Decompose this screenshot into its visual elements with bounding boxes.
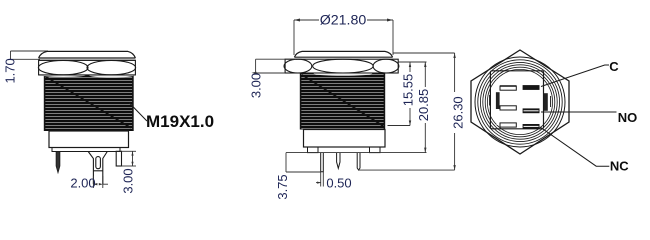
leader and label NO (541, 110, 637, 125)
button cap (middle view) (294, 51, 392, 57)
svg-text:M19X1.0: M19X1.0 (146, 112, 214, 131)
svg-text:3.00: 3.00 (249, 73, 264, 98)
pin terminal center with slot (left view) (88, 152, 107, 185)
terminal slot row1 right (C) (523, 85, 540, 90)
hex nut outline (bottom view) (471, 50, 569, 154)
dimension 3.00 (left view) (122, 151, 137, 166)
dimension 0.50 (316, 172, 323, 187)
pin 3 (middle view) (357, 153, 360, 170)
dimension 26.30 (358, 53, 455, 170)
base housing (left view) (49, 131, 129, 148)
terminal slot row3 left (500, 123, 516, 127)
outer circle (475, 57, 565, 147)
svg-text:NC: NC (610, 159, 629, 174)
latch left (490, 92, 500, 109)
svg-text:3.75: 3.75 (275, 174, 290, 199)
svg-text:Ø21.80: Ø21.80 (320, 13, 367, 29)
threaded body (left view) (39, 75, 136, 131)
terminal slot row1 left (500, 86, 516, 90)
threaded body (middle view) (285, 73, 398, 130)
svg-text:3.00: 3.00 (121, 168, 136, 193)
hex nut (left view) (38, 60, 135, 75)
pin terminal left (left view) (56, 152, 60, 173)
dimension 20.85 (286, 62, 427, 153)
svg-text:26.30: 26.30 (451, 96, 466, 129)
svg-text:1.70: 1.70 (2, 58, 17, 83)
leader and label NC (540, 127, 629, 174)
thread ring bundle (clipped at slot window) (480, 62, 559, 141)
svg-text:0.50: 0.50 (326, 175, 351, 190)
terminal slot row2 right (NO) (523, 108, 540, 113)
base housing (middle view) (304, 130, 386, 148)
dimension 3.75 (286, 153, 321, 172)
pin 1 (middle view) (321, 153, 324, 172)
svg-text:NO: NO (618, 110, 638, 125)
svg-text:20.85: 20.85 (416, 89, 431, 122)
leader and label C (541, 59, 619, 87)
latch right (544, 93, 551, 111)
svg-text:C: C (609, 59, 619, 74)
dimension Ø21.80 (294, 20, 393, 55)
base feet (middle view) (308, 147, 381, 153)
dimension 15.55 (388, 62, 427, 126)
pin 2 center (middle view) (337, 153, 340, 169)
terminal slot row2 left (500, 106, 516, 110)
svg-text:2.00: 2.00 (70, 176, 95, 191)
dimension text 1.70 (2, 58, 17, 83)
dimension 2.00 (93, 176, 108, 188)
base skirt (left view) (52, 148, 120, 152)
button cap (left view) (39, 51, 136, 58)
dimension 3.00 (middle view left) (256, 59, 296, 73)
hex nut (middle view) (284, 59, 399, 73)
dimension 1.70 (11, 51, 49, 59)
svg-text:15.55: 15.55 (400, 74, 415, 107)
terminal slot row3 right (NC) (523, 124, 540, 129)
flat tab terminal right (left view) (116, 151, 121, 166)
connector housing square (490, 71, 543, 129)
label M19X1.0 with leader (129, 103, 214, 131)
